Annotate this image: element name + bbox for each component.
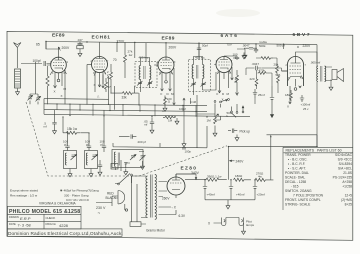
svg-text:Dominion Radios Electrical Cor: Dominion Radios Electrical Corp.Ltd,Otah… xyxy=(8,231,123,237)
svg-text:+100mf: +100mf xyxy=(301,102,311,106)
gang section 2 xyxy=(85,151,98,169)
resistor 180 cathode xyxy=(290,90,293,101)
IFT2 trimmers xyxy=(191,82,207,87)
wire EF89 V3 pins xyxy=(161,68,174,105)
frame border xyxy=(7,31,353,240)
IFT1 primary coil xyxy=(139,66,145,80)
ground left of 6BV7 xyxy=(242,53,246,59)
svg-text:470k: 470k xyxy=(259,69,266,73)
ground .05mf xyxy=(150,127,154,133)
wire IFT2 leads xyxy=(194,57,217,96)
resistor 33k xyxy=(109,76,140,110)
svg-text:.047: .047 xyxy=(77,38,83,42)
cap 100pf gang1 xyxy=(65,133,69,151)
cap 40mf b xyxy=(229,180,233,200)
coupling cap .0047 grid xyxy=(250,66,261,70)
ground gang2 xyxy=(89,171,93,177)
pilot lamp 1 xyxy=(222,218,226,226)
svg-text:+40mf: +40mf xyxy=(207,192,216,196)
svg-text:200V: 200V xyxy=(62,46,71,50)
ground .5mf xyxy=(53,128,57,134)
svg-text:100p: 100p xyxy=(185,150,192,154)
svg-text:Res wattage : 1/2 w: Res wattage : 1/2 w xyxy=(10,193,38,197)
resistor 180 filter xyxy=(234,178,251,181)
svg-text:.0047: .0047 xyxy=(252,62,260,66)
tube EF89 V3 xyxy=(154,57,174,73)
wire EF89 pins xyxy=(54,70,66,104)
cap 20mf xyxy=(253,180,257,200)
svg-text:6.3V: 6.3V xyxy=(179,214,186,218)
svg-text:330 · Plater Gang: 330 · Plater Gang xyxy=(64,193,89,197)
svg-text:FRONT- UNITS COMPL: FRONT- UNITS COMPL xyxy=(285,198,321,202)
output transformer xyxy=(317,64,326,82)
svg-text:SWITCH- 2GANG: SWITCH- 2GANG xyxy=(285,189,312,193)
IFT2 secondary coil xyxy=(203,65,204,79)
wire IFT1 leads xyxy=(141,58,150,93)
aerial coil xyxy=(15,69,21,88)
switch mains xyxy=(115,174,132,185)
wire b+ feed vertical xyxy=(229,82,318,180)
dashed gang link xyxy=(26,102,227,176)
pickup jack xyxy=(228,129,237,133)
svg-text:~: ~ xyxy=(98,210,101,215)
gramo motor xyxy=(118,191,125,205)
ground osc trimmer xyxy=(141,163,145,169)
IFT1 secondary coil xyxy=(150,66,151,80)
speaker xyxy=(325,67,344,82)
svg-text:4228: 4228 xyxy=(59,223,69,228)
tube ECH81 V2 xyxy=(87,57,108,73)
svg-text:BLACK: BLACK xyxy=(106,196,117,200)
misc parts above transformer xyxy=(98,160,130,175)
resistor 15k 1w xyxy=(63,117,89,134)
svg-text:.005-mf: .005-mf xyxy=(310,61,320,65)
cap 100pf osc xyxy=(102,110,106,152)
cap .5mf agc xyxy=(52,110,56,128)
svg-text:100pf: 100pf xyxy=(179,107,186,111)
grid cap 100pf xyxy=(21,61,51,66)
tube 6AT6 V4 xyxy=(214,56,237,73)
svg-text:8+25: 8+25 xyxy=(345,202,353,206)
svg-text:6BV7: 6BV7 xyxy=(293,32,312,38)
svg-text:75V: 75V xyxy=(227,43,232,47)
ground speaker xyxy=(329,84,333,90)
svg-text:- 615: - 615 xyxy=(291,184,299,188)
svg-text:STRING- SCALE: STRING- SCALE xyxy=(285,202,311,206)
cap 40mf a xyxy=(203,180,207,200)
ground filter xyxy=(226,203,230,209)
svg-text:pf: pf xyxy=(234,55,237,59)
svg-text:TRANS- POWER: TRANS- POWER xyxy=(285,153,311,157)
svg-text:DATE: DATE xyxy=(9,222,16,226)
svg-text:500k: 500k xyxy=(259,44,266,48)
svg-text:25 v: 25 v xyxy=(303,107,309,111)
wire ECH81 pins xyxy=(87,65,103,105)
IF transformer 2 dashed box xyxy=(189,60,211,92)
resistor 2M grid xyxy=(46,66,49,104)
ground pilot xyxy=(242,228,246,234)
oscillator coil box xyxy=(112,150,146,169)
resistor 10M xyxy=(236,70,239,95)
ground 220 xyxy=(163,105,167,111)
wire rail risers xyxy=(46,42,317,65)
svg-text:SCALE- DIAL: SCALE- DIAL xyxy=(285,175,305,179)
svg-text:+1C58: +1C58 xyxy=(342,184,352,188)
arrow 240V xyxy=(230,160,235,162)
svg-text:15k 1w: 15k 1w xyxy=(67,127,78,131)
resistor 390 1w xyxy=(206,178,227,181)
svg-text:20k: 20k xyxy=(274,62,279,66)
svg-text:390Ω 1.1w: 390Ω 1.1w xyxy=(207,174,222,178)
ground gang1 xyxy=(68,171,72,177)
IF transformer 1 dashed box xyxy=(135,62,157,88)
aerial trimmer b xyxy=(35,96,40,101)
cap 100p xyxy=(182,148,186,149)
svg-text:+20mf: +20mf xyxy=(257,192,266,196)
resistor plate load 6AT6 xyxy=(256,57,273,60)
svg-text:EF89: EF89 xyxy=(162,36,175,42)
svg-text:X: X xyxy=(222,98,224,102)
svg-text:50pf: 50pf xyxy=(202,43,208,47)
svg-text:PHILCO MODEL 615 &1258: PHILCO MODEL 615 &1258 xyxy=(9,209,80,215)
wire EZ80 plates xyxy=(159,182,177,199)
svg-text:260V: 260V xyxy=(162,197,170,201)
tube EF89 V1 xyxy=(46,42,66,73)
fuse xyxy=(130,176,146,226)
resistor 5k6 xyxy=(277,75,280,85)
svg-text:455 k.c.: 455 k.c. xyxy=(195,56,206,60)
svg-text:S/9 +5CC: S/9 +5CC xyxy=(338,157,353,161)
svg-text:X: X xyxy=(164,97,166,101)
svg-text:220V: 220V xyxy=(303,44,312,48)
svg-text:Pick up: Pick up xyxy=(240,130,251,134)
switch wafer a xyxy=(214,99,229,103)
filter rail xyxy=(185,178,273,181)
svg-text:180Ω: 180Ω xyxy=(235,174,243,178)
svg-text:pf: pf xyxy=(86,143,89,147)
svg-text:→X: →X xyxy=(171,205,177,209)
svg-text:33k: 33k xyxy=(122,95,128,99)
svg-text:180: 180 xyxy=(285,93,290,97)
resistor 1M horizontal xyxy=(163,116,176,119)
pilot lamp 2 xyxy=(239,218,243,226)
wire 151 node xyxy=(183,98,191,141)
svg-text:lamps: lamps xyxy=(246,223,255,227)
wire agc line xyxy=(113,114,207,148)
svg-text:Except where stated: Except where stated xyxy=(10,188,38,192)
switch wafer b xyxy=(231,104,244,117)
svg-text:(2)+MS: (2)+MS xyxy=(341,198,353,202)
antenna xyxy=(14,43,22,69)
label 340V arrow xyxy=(195,174,197,180)
svg-text:7- 3 -58: 7- 3 -58 xyxy=(18,224,31,228)
ground 100pf xyxy=(243,52,247,58)
svg-text:47: 47 xyxy=(108,85,112,89)
resistor 220 xyxy=(164,96,167,106)
cap 50pf xyxy=(197,44,201,57)
cap .05mf xyxy=(150,117,154,127)
svg-text:X: X xyxy=(61,94,63,98)
tube EZ80 xyxy=(167,174,196,195)
resistor 1M vol pot xyxy=(214,117,217,124)
svg-text:• - B.C. OSC.: • - B.C. OSC. xyxy=(288,157,308,161)
ground 1M xyxy=(175,118,179,124)
svg-text:X: X xyxy=(94,83,96,87)
svg-text:EF89: EF89 xyxy=(52,33,65,39)
svg-text:S/A +8CL: S/A +8CL xyxy=(338,166,352,170)
svg-text:7 POLE 2POSITION: 7 POLE 2POSITION xyxy=(293,193,324,197)
svg-text:+40mf: +40mf xyxy=(236,192,245,196)
svg-text:5k6: 5k6 xyxy=(276,73,281,77)
aerial trimmer a xyxy=(27,95,32,100)
svg-text:F: F xyxy=(217,92,219,96)
svg-text:200V: 200V xyxy=(169,45,178,49)
ground under aerial coil xyxy=(16,89,20,95)
resistor 22k xyxy=(110,64,113,94)
wire 6BV7 grid net xyxy=(246,58,288,104)
cap 100mf 25v xyxy=(300,95,304,102)
svg-text:230 V: 230 V xyxy=(96,206,106,210)
cap tone 500pf xyxy=(254,47,258,53)
svg-text:12+5: 12+5 xyxy=(345,193,353,197)
cap .047 with box xyxy=(77,42,83,50)
scan shading xyxy=(216,9,260,17)
bus vertical ticks xyxy=(57,104,196,117)
svg-text:F: F xyxy=(161,92,163,96)
svg-text:X: X xyxy=(287,105,289,109)
svg-text:.0047: .0047 xyxy=(242,43,250,47)
ground pickup xyxy=(235,135,239,141)
cap electrolytic 6BV7 xyxy=(270,86,274,118)
parts list table xyxy=(283,147,353,210)
svg-text:A+258: A+258 xyxy=(342,180,352,184)
wire trimmer leads xyxy=(30,62,38,104)
power transformer xyxy=(146,175,157,220)
bus wires xyxy=(44,99,250,117)
svg-text:220: 220 xyxy=(250,77,255,81)
resistor 470k xyxy=(258,72,269,75)
gang section 1 xyxy=(64,151,77,169)
wire 6AT6 pins xyxy=(218,67,232,93)
svg-text:▲: ▲ xyxy=(297,44,300,48)
svg-text:100pf: 100pf xyxy=(33,59,41,63)
wire 6BV7 pins xyxy=(290,52,317,104)
svg-text:1M: 1M xyxy=(168,119,173,123)
svg-text:PS-1/24+155: PS-1/24+155 xyxy=(333,175,353,179)
svg-text:✺ 465pf for Plessey(?)Gang: ✺ 465pf for Plessey(?)Gang xyxy=(60,188,99,192)
ground .047 xyxy=(78,50,82,56)
svg-text:DECAL - 1258: DECAL - 1258 xyxy=(285,180,306,184)
cap 100pf xyxy=(235,56,239,60)
svg-text:21-8S: 21-8S xyxy=(343,171,353,175)
svg-text:DRAWN: DRAWN xyxy=(9,215,19,219)
svg-text:455 k.c.: 455 k.c. xyxy=(139,55,150,59)
wire motor leads xyxy=(96,196,128,211)
resistor 47 osc grid xyxy=(105,78,108,92)
resistor 270 4w xyxy=(255,178,273,181)
wire pilot lamps xyxy=(214,218,244,229)
ground osc box xyxy=(124,169,128,175)
wire gnd lead xyxy=(237,49,245,52)
cap 200pf padder xyxy=(119,134,136,138)
svg-text:0.1M: 0.1M xyxy=(190,100,197,104)
svg-text:POINTER- DIAL: POINTER- DIAL xyxy=(285,171,309,175)
svg-text:1M: 1M xyxy=(207,118,212,122)
svg-text:pf: pf xyxy=(64,143,67,147)
svg-text:ECH81: ECH81 xyxy=(92,35,111,41)
svg-text:DWG No: DWG No xyxy=(46,222,57,226)
IFT1 trimmers xyxy=(137,81,153,86)
svg-text:25mf: 25mf xyxy=(258,93,265,97)
svg-text:340V: 340V xyxy=(191,171,200,175)
svg-text:S/D 6xOAC: S/D 6xOAC xyxy=(335,153,353,157)
resistor 27k 1w xyxy=(124,42,135,78)
svg-text:Gramo Motor: Gramo Motor xyxy=(146,229,166,233)
ground 100p xyxy=(182,141,186,147)
svg-text:X: X xyxy=(54,90,56,94)
wire transformer taps xyxy=(132,176,177,218)
resistor 220 cathode xyxy=(255,77,258,86)
label 200V with arrow xyxy=(58,47,60,50)
svg-text:200 pf: 200 pf xyxy=(138,140,147,144)
svg-text:• - B.C. R.F.: • - B.C. R.F. xyxy=(288,162,305,166)
schematic paper area xyxy=(7,31,353,240)
resistor 20k xyxy=(276,64,279,74)
svg-text:CHECK: CHECK xyxy=(46,216,56,220)
svg-text:S/4-8394: S/4-8394 xyxy=(339,162,353,166)
tube 6BV7 V5 xyxy=(282,57,304,87)
wire tube pin details xyxy=(50,70,304,105)
svg-text:RED: RED xyxy=(107,191,114,195)
svg-text:mf: mf xyxy=(144,122,147,126)
svg-text:70: 70 xyxy=(113,58,117,62)
ground vol pot xyxy=(213,130,217,136)
svg-text:E.R.P: E.R.P xyxy=(20,216,31,221)
coupling cap .0047 top xyxy=(244,48,257,50)
svg-text:240V: 240V xyxy=(236,160,245,164)
filter ground bus xyxy=(205,200,255,203)
svg-text:65: 65 xyxy=(36,43,40,47)
top B+ rail xyxy=(46,42,317,45)
svg-text:VIRGINIA & OKLAHOMA: VIRGINIA & OKLAHOMA xyxy=(39,202,77,206)
IFT2 primary coil xyxy=(192,65,198,79)
volume control area wires xyxy=(197,95,221,130)
title block xyxy=(8,206,123,236)
svg-text:• - S.C. AFT.: • - S.C. AFT. xyxy=(288,166,306,170)
cap 25mf xyxy=(253,89,257,98)
svg-text:mf: mf xyxy=(44,124,47,128)
svg-text:pf: pf xyxy=(101,143,104,147)
svg-text:6AT6: 6AT6 xyxy=(221,33,239,39)
cap 100pf gang2 xyxy=(87,133,91,151)
